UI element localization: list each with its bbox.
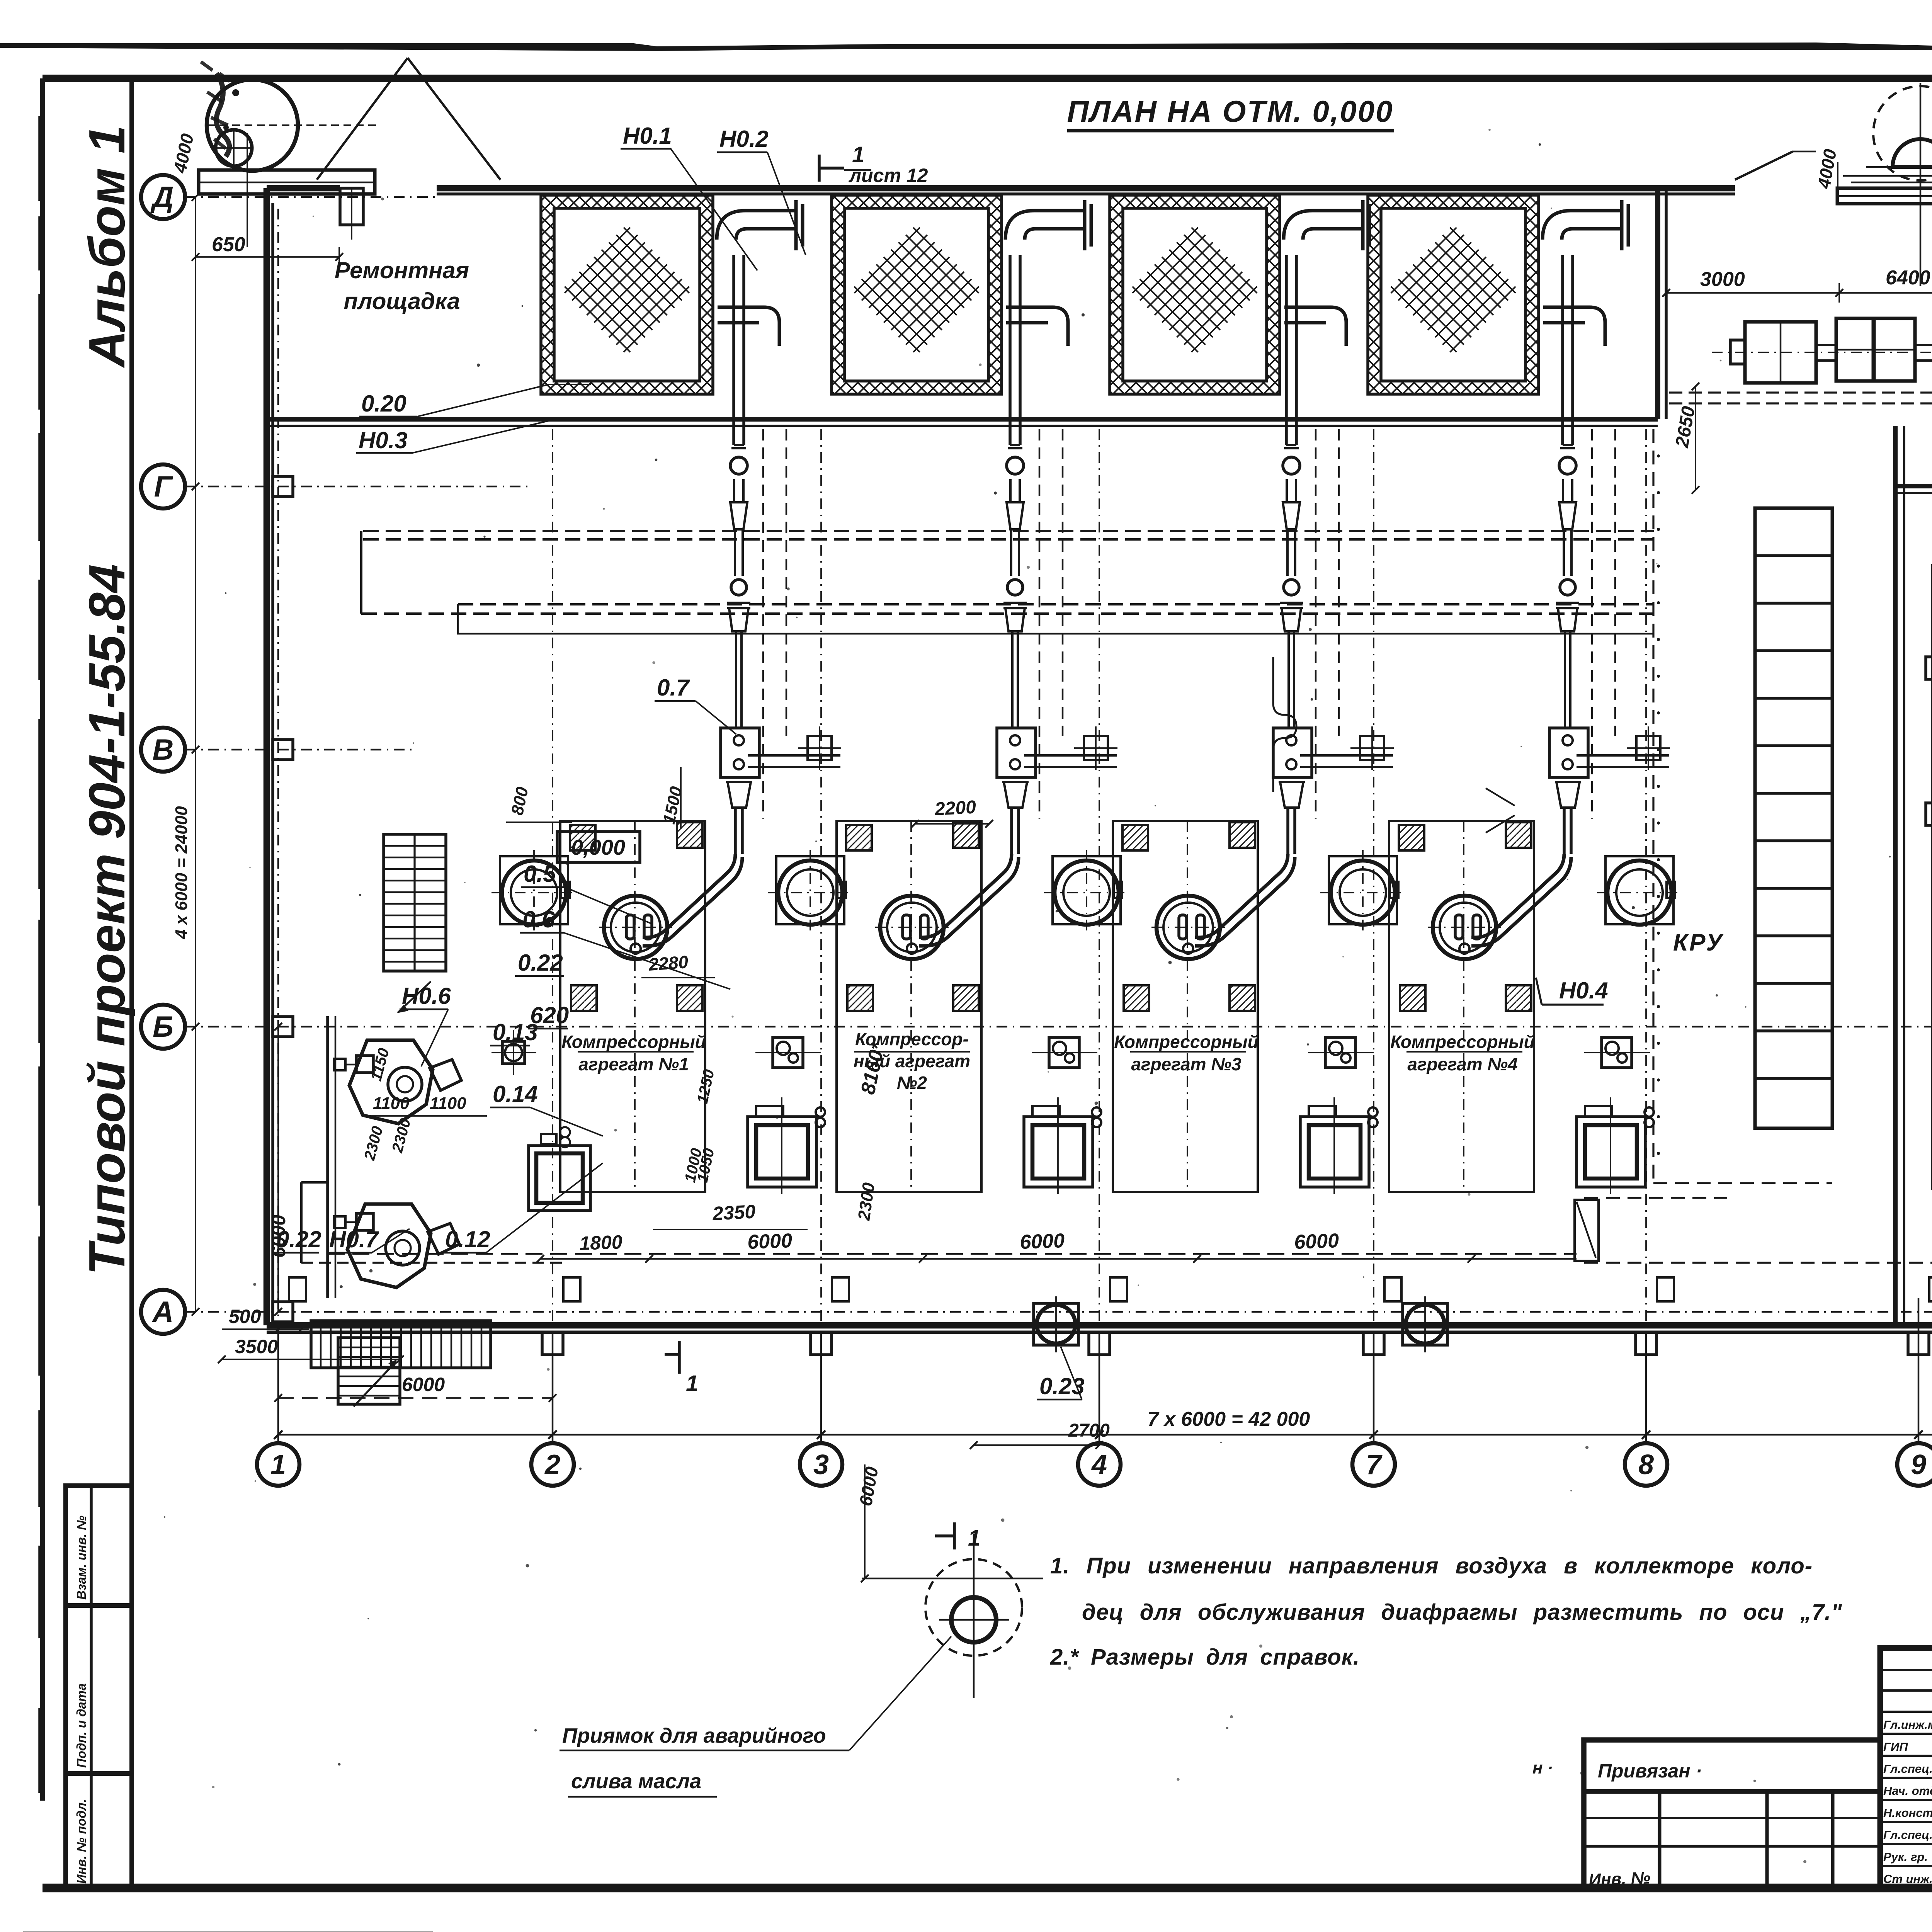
grid axis letter bubble Б: [141, 1005, 185, 1049]
unit 2 motor circle: [880, 896, 944, 959]
axis line 3: [820, 1332, 822, 1443]
vent chamber 3 crosshatch screen: [1129, 224, 1260, 355]
axis line Д: [185, 196, 439, 198]
svg-text:ГИП: ГИП: [1883, 1740, 1908, 1753]
unit 3 hatched pads: [1122, 825, 1148, 850]
unit 3 motor circle: [1156, 896, 1220, 959]
svg-text:А: А: [152, 1296, 174, 1328]
KRU dots line: [1657, 454, 1660, 457]
attachment table Привязан: [1584, 1740, 1880, 1888]
grid axis letter bubble Д: [141, 175, 185, 219]
unit 1 compressor circle on pad: [500, 856, 568, 924]
svg-text:Н0.6: Н0.6: [402, 983, 451, 1009]
svg-text:площадка: площадка: [344, 288, 460, 314]
scan paper top edge: [0, 43, 1932, 51]
elevation box 0,000: [557, 832, 640, 862]
grid axis number bubble 7: [1352, 1443, 1395, 1486]
section mark 1 bottom: [953, 1522, 956, 1549]
unit 3 small cross pad right: [1360, 736, 1384, 760]
svg-text:4: 4: [1091, 1449, 1107, 1480]
stair direction arrow: [354, 1362, 396, 1406]
svg-text:0.6: 0.6: [522, 906, 555, 932]
svg-text:Компрессорный: Компрессорный: [1114, 1032, 1259, 1052]
svg-text:Альбом 1: Альбом 1: [78, 125, 135, 368]
svg-text:Д: Д: [150, 181, 174, 214]
svg-text:0.22: 0.22: [518, 950, 563, 976]
half circle hatch top-right: [1893, 139, 1932, 167]
small equipment near axis 2: [502, 1041, 525, 1064]
scan paper left edge marks: [38, 116, 44, 201]
unit 4 elbow to motor: [1471, 854, 1564, 937]
unit 4 vertical duct dashed lines: [1591, 429, 1593, 819]
svg-text:2200: 2200: [934, 797, 977, 820]
section flag 1 / лист 12: [818, 155, 821, 182]
grid axis letter bubble В: [141, 728, 185, 772]
entrance staircase bottom left exterior: [311, 1321, 491, 1368]
air intake elbow pipe: [1543, 200, 1628, 346]
building left wall: [264, 188, 270, 1325]
unit 4 valve box: [1602, 1037, 1632, 1068]
vertical axis line through crane circle: [1920, 83, 1922, 286]
svg-text:6000: 6000: [1019, 1230, 1065, 1253]
svg-text:агрегат №1: агрегат №1: [578, 1054, 689, 1074]
air intake elbow pipe: [1005, 200, 1091, 346]
compressor unit 3 foundation outline: [1113, 821, 1258, 1192]
compressor circle aisle 5: [1605, 856, 1673, 924]
svg-text:500: 500: [229, 1306, 261, 1327]
axis line to well: [973, 1534, 975, 1698]
pump 2 hexagon: [347, 1204, 431, 1287]
unit 4 small cross pad right: [1636, 736, 1660, 760]
svg-text:В: В: [153, 733, 174, 766]
building bottom wall: [267, 1322, 1932, 1329]
unit 3 horizontal pipe stub: [1300, 754, 1393, 757]
svg-text:6400: 6400: [1886, 267, 1930, 289]
axis line Г: [185, 486, 533, 488]
unit 2 vertical duct dashed lines: [1039, 429, 1041, 819]
grid axis letter bubble А: [141, 1290, 185, 1334]
air intake elbow pipe: [717, 200, 803, 346]
unit 1 separator box: [721, 728, 759, 777]
svg-text:3500: 3500: [235, 1336, 278, 1357]
unit 4 pipe inline assembly: [1471, 445, 1588, 946]
unit 4 intake pipe vertical run: [1561, 255, 1564, 445]
unit 3 valve box: [1325, 1037, 1355, 1068]
KRU dashed boundary: [1652, 429, 1654, 1183]
unit 2 separator box: [997, 728, 1036, 777]
vent chamber 4 hatched walls: [1368, 195, 1539, 394]
svg-text:1: 1: [852, 142, 864, 167]
unit 1 valve box: [773, 1037, 803, 1068]
small stair in hall left: [384, 834, 446, 971]
unit 1 hatched pads: [570, 825, 595, 850]
unit 1 motor circle: [604, 896, 667, 959]
svg-text:агрегат №4: агрегат №4: [1407, 1054, 1517, 1074]
svg-text:4 x 6000 = 24000: 4 x 6000 = 24000: [172, 806, 191, 939]
vent chamber 1 hatched walls: [541, 195, 713, 394]
pilasters on left wall at letter axes: [273, 476, 293, 497]
axis line А: [185, 1311, 1932, 1313]
svg-text:0.5: 0.5: [524, 861, 556, 887]
svg-text:Гл.спец.лоТБ: Гл.спец.лоТБ: [1883, 1762, 1932, 1776]
unit 1 pipe inline assembly: [643, 445, 759, 946]
svg-text:Ст инж.: Ст инж.: [1883, 1872, 1932, 1886]
dashed corridor boundary lower: [1584, 1262, 1932, 1264]
axis dash-dot verticals through hall: [552, 429, 553, 1321]
svg-text:6000: 6000: [747, 1230, 793, 1253]
unit 1 oil pad: [748, 1117, 816, 1187]
column pier stubs below bottom wall: [542, 1332, 563, 1355]
air intake elbow pipe: [1284, 200, 1369, 346]
unit 1 intake pipe vertical run: [732, 255, 735, 445]
scan bottom-left edge line: [23, 1932, 433, 1932]
svg-text:620: 620: [530, 1002, 569, 1028]
grid axis number bubble 1: [257, 1443, 299, 1486]
unit 2 elbow to motor: [919, 854, 1012, 937]
axis line 9 vertical extension: [1918, 1298, 1920, 1332]
svg-text:Нач. отд.: Нач. отд.: [1883, 1784, 1932, 1798]
svg-text:КРУ: КРУ: [1673, 929, 1724, 956]
svg-text:Н0.2: Н0.2: [719, 126, 769, 152]
unit 2 horizontal pipe stub: [1024, 754, 1117, 757]
lower elbow pipe: [1543, 307, 1605, 346]
svg-text:Компрессорный: Компрессорный: [561, 1032, 706, 1052]
axis line В: [185, 749, 413, 751]
svg-text:Н0.3: Н0.3: [359, 427, 408, 453]
svg-text:6000: 6000: [1294, 1230, 1339, 1253]
svg-text:ПЛАН НА ОТМ. 0,000: ПЛАН НА ОТМ. 0,000: [1067, 94, 1393, 128]
svg-text:7 x 6000 = 42 000: 7 x 6000 = 42 000: [1148, 1408, 1310, 1430]
grid axis number bubble 8: [1625, 1443, 1667, 1486]
title block signature rows: [1880, 1669, 1932, 1671]
break squiggle line in hall: [1273, 657, 1296, 792]
bottom-left attribute table: [66, 1486, 132, 1888]
unit 4 horizontal pipe stub: [1577, 754, 1669, 757]
svg-text:Приямок для аварийного: Приямок для аварийного: [562, 1724, 826, 1747]
axis line 7: [1373, 1332, 1375, 1443]
svg-text:0,000: 0,000: [571, 835, 625, 859]
crane circle small top-left: [216, 130, 252, 166]
svg-text:1: 1: [270, 1449, 286, 1480]
canopy slab top-left: [199, 170, 375, 194]
axis line 2: [552, 1332, 554, 1443]
title block outer box: [1880, 1648, 1932, 1888]
svg-text:650: 650: [212, 233, 245, 256]
svg-text:1. При изменении направления в: 1. При изменении направления воздуха в к…: [1050, 1553, 1813, 1578]
axis line 1: [277, 1332, 279, 1443]
svg-text:2350: 2350: [712, 1201, 756, 1225]
compressor unit 1 foundation outline: [560, 821, 705, 1192]
column piers above bottom wall: [289, 1277, 306, 1301]
canopy roof peak lines top-left: [317, 58, 408, 180]
svg-text:дец для обслуживания диафрагмы: дец для обслуживания диафрагмы разместит…: [1082, 1600, 1842, 1625]
svg-text:2: 2: [544, 1449, 560, 1480]
KTP dimension 2650 vertical: [1695, 386, 1696, 490]
unit 1 small cross pad right: [808, 736, 832, 760]
floor drain pads on bottom wall: [1034, 1303, 1078, 1345]
svg-text:Н0.1: Н0.1: [623, 123, 672, 149]
unit 2 valve box: [1049, 1037, 1079, 1068]
unit 2 pipe inline assembly: [919, 445, 1036, 946]
svg-text:Инв. №: Инв. №: [1588, 1868, 1651, 1889]
corridor wall: [1893, 426, 1898, 1325]
dimension line 4x6000=24000 vertical: [195, 197, 196, 1312]
svg-text:№2: №2: [897, 1073, 927, 1093]
svg-text:1100: 1100: [430, 1094, 466, 1113]
svg-text:слива масла: слива масла: [571, 1770, 701, 1793]
unit 1 elbow to motor: [643, 854, 735, 937]
drawing frame: [43, 75, 1932, 82]
stamp column divider: [129, 78, 134, 1888]
svg-text:0.7: 0.7: [657, 675, 690, 701]
unit 3 oil pad: [1300, 1117, 1369, 1187]
unit 3 separator box: [1273, 728, 1312, 777]
svg-text:3: 3: [813, 1449, 829, 1480]
pump room dashed enclosure: [326, 1016, 329, 1298]
KRU switchgear cell row: [1755, 508, 1832, 1128]
smudge near top left: [216, 73, 230, 156]
pump suction fittings: [334, 1059, 345, 1070]
grid axis number bubble 2: [531, 1443, 574, 1486]
unit 3 pipe inline assembly: [1195, 445, 1312, 946]
vent chamber 1 crosshatch screen: [561, 224, 692, 355]
svg-text:Н.констр.: Н.констр.: [1883, 1806, 1932, 1820]
unit 2 hatched pads: [846, 825, 872, 850]
svg-text:1: 1: [686, 1371, 698, 1396]
svg-text:Типовой проект 904-1-55.84: Типовой проект 904-1-55.84: [78, 564, 135, 1275]
svg-text:Н0.7: Н0.7: [329, 1226, 379, 1252]
svg-text:0.20: 0.20: [361, 391, 406, 417]
heating pipes vertical by corridor: [1931, 564, 1932, 1190]
svg-text:3000: 3000: [1700, 268, 1745, 291]
KTP cable channel dashed lines: [1669, 391, 1932, 393]
KTP dimension 3000 / 6400: [1666, 292, 1932, 294]
lower elbow pipe: [1006, 307, 1068, 346]
svg-text:6000: 6000: [402, 1374, 445, 1395]
svg-text:2280: 2280: [648, 952, 689, 975]
svg-text:1100: 1100: [373, 1094, 410, 1113]
unit 3 intake pipe vertical run: [1285, 255, 1288, 445]
dashed crane circle top-right p.1TT: [1873, 86, 1932, 180]
svg-text:лист 12: лист 12: [849, 165, 928, 186]
axis line 1 vertical: [277, 205, 279, 1332]
vent chamber band bottom wall: [267, 417, 1658, 422]
air collector horizontal dashed runs: [363, 530, 1654, 532]
svg-text:Ремонтная: Ремонтная: [335, 257, 469, 283]
transformer group 1: [1745, 322, 1816, 383]
svg-text:Гл.инж.мнст: Гл.инж.мнст: [1883, 1718, 1932, 1731]
smudge line above frame bottom: [958, 1886, 1932, 1890]
axis line Б: [185, 1026, 1932, 1028]
building top wall: [267, 185, 340, 192]
lower elbow pipe: [1284, 307, 1346, 346]
grid axis letter bubble Г: [141, 464, 185, 509]
svg-text:0.23: 0.23: [1039, 1373, 1085, 1399]
unit 2 compressor circle on pad: [776, 856, 844, 924]
compressor unit 4 foundation outline: [1389, 821, 1534, 1192]
grid axis number bubble 9: [1897, 1443, 1932, 1486]
unit 4 motor circle: [1433, 896, 1496, 959]
unit 4 compressor circle on pad: [1329, 856, 1397, 924]
unit 2 intake pipe vertical run: [1009, 255, 1012, 445]
wall below KTP: [1895, 484, 1932, 488]
axis line 9: [1918, 1332, 1920, 1443]
svg-text:Компрессорный: Компрессорный: [1390, 1032, 1535, 1052]
door opening jambs top-left: [340, 188, 363, 225]
vent chamber 3 hatched walls: [1110, 195, 1280, 394]
service well dashed circle: [925, 1559, 1022, 1656]
svg-text:Подп. и дата: Подп. и дата: [74, 1683, 88, 1768]
unit 3 elbow to motor: [1195, 854, 1288, 937]
vent chamber 2 hatched walls: [832, 195, 1002, 394]
grid axis number bubble 4: [1078, 1443, 1121, 1486]
unit 3 vertical duct dashed lines: [1315, 429, 1317, 819]
dim line 7x6000=42000: [278, 1434, 1932, 1436]
service well inner circle: [951, 1597, 996, 1642]
wall between chamber row and KTP: [1655, 188, 1660, 419]
svg-text:0.12: 0.12: [445, 1226, 490, 1252]
svg-text:Рук. гр.: Рук. гр.: [1883, 1850, 1928, 1864]
svg-text:н ·: н ·: [1532, 1759, 1553, 1777]
svg-text:2.* Размеры для справок.: 2.* Размеры для справок.: [1050, 1645, 1360, 1670]
svg-text:9: 9: [1911, 1449, 1926, 1480]
unit 1 horizontal pipe stub: [748, 754, 840, 757]
svg-text:Взам. инв. №: Взам. инв. №: [74, 1515, 88, 1600]
unit 4 separator box: [1549, 728, 1588, 777]
vent chamber 4 crosshatch screen: [1388, 224, 1519, 355]
svg-text:8: 8: [1638, 1449, 1654, 1480]
crane circle large top-left: [207, 80, 298, 171]
ramp lines top-right: [1843, 175, 1932, 177]
collector edge step: [360, 531, 362, 614]
unit 2 small cross pad right: [1084, 736, 1108, 760]
unit 4 hatched pads: [1399, 825, 1424, 850]
opening arrows in hall right: [1486, 788, 1515, 806]
door leaf lower corridor: [1575, 1200, 1599, 1261]
svg-text:7: 7: [1366, 1449, 1383, 1480]
svg-text:Привязан ·: Привязан ·: [1598, 1760, 1702, 1782]
lower elbow pipe: [718, 307, 779, 346]
canopy slab top-right: [1837, 188, 1932, 204]
svg-text:0.14: 0.14: [493, 1081, 538, 1107]
svg-text:Гл.спец.: Гл.спец.: [1883, 1828, 1932, 1842]
unit 1 vertical duct dashed lines: [762, 429, 764, 819]
svg-text:Г: Г: [154, 470, 173, 503]
transformer row centerline: [1712, 352, 1932, 353]
unit 2 oil pad: [1024, 1117, 1093, 1187]
svg-text:0.22: 0.22: [276, 1226, 321, 1252]
grid axis number bubble 3: [800, 1443, 842, 1486]
unit 4 oil pad: [1577, 1117, 1645, 1187]
axis line 8: [1645, 1332, 1647, 1443]
canopy roof slant lines top-right: [1735, 151, 1793, 180]
svg-text:Б: Б: [153, 1010, 173, 1043]
interior dim chain dashed line: [328, 1253, 1577, 1255]
axis line 4: [1099, 1332, 1100, 1443]
pump 1 hexagon: [349, 1040, 433, 1124]
unit 3 compressor circle on pad: [1053, 856, 1121, 924]
section mark 1 bottom of section line: [678, 1341, 681, 1374]
svg-text:Инв. № подл.: Инв. № подл.: [74, 1799, 88, 1884]
compressor unit 2 foundation outline: [837, 821, 981, 1192]
svg-text:Н0.4: Н0.4: [1559, 978, 1608, 1003]
vent chamber 2 crosshatch screen: [851, 224, 982, 355]
svg-text:1800: 1800: [579, 1231, 622, 1254]
svg-text:агрегат №3: агрегат №3: [1131, 1054, 1242, 1074]
transformer group 2: [1836, 318, 1873, 381]
